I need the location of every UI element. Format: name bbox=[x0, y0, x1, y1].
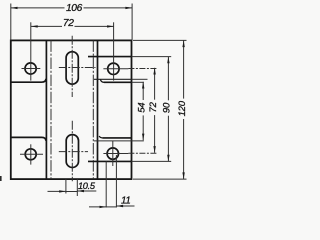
dim 10.5 ext left bbox=[65, 179, 67, 193]
dim 106 ext right bbox=[131, 4, 133, 41]
dim 120 ext top bbox=[133, 39, 187, 41]
dim 90 line bbox=[167, 57, 169, 162]
dim 120 ext bottom bbox=[133, 178, 187, 180]
hole bottom-left bbox=[25, 149, 36, 160]
dim 54 text bbox=[137, 100, 145, 115]
centerline TL circle vertical / 72-dim ext bbox=[30, 22, 32, 80]
svg-text:90: 90 bbox=[161, 102, 172, 113]
dim 72 top line bbox=[31, 25, 62, 27]
slot bottom bbox=[66, 135, 78, 168]
bottom-left cut bbox=[11, 137, 46, 140]
centerline top slot horizontal bbox=[59, 67, 96, 69]
hole bottom-right bbox=[107, 148, 118, 159]
dim 11 connector bbox=[106, 206, 116, 208]
fold edge right bbox=[97, 40, 99, 179]
centerline BR circle horizontal bbox=[103, 153, 128, 155]
dim 54 ext top bbox=[132, 81, 144, 83]
scan smudge left border bbox=[0, 176, 2, 181]
svg-text:72: 72 bbox=[148, 101, 159, 112]
bend line left (dash-dot) bbox=[50, 40, 52, 179]
tab edge thin ext right bbox=[132, 78, 148, 80]
svg-text:10.5: 10.5 bbox=[78, 181, 96, 191]
dim 11 shelf bbox=[116, 205, 134, 207]
centerline BL circle horizontal bbox=[20, 153, 43, 155]
dim 54 ext bottom bbox=[94, 140, 144, 142]
svg-text:120: 120 bbox=[177, 100, 188, 116]
centerline bottom slot horizontal bbox=[59, 151, 88, 153]
slot top bbox=[66, 52, 78, 84]
centerline bottom row right ext (72-dim) bbox=[128, 152, 157, 154]
plate outline bbox=[11, 40, 132, 179]
svg-text:54: 54 bbox=[136, 103, 147, 113]
dim 10.5 ext right bbox=[76, 179, 78, 196]
fold edge left bbox=[45, 40, 47, 179]
hole top-left bbox=[25, 63, 36, 74]
centerline TR circle vertical / 72-dim ext bbox=[113, 22, 115, 80]
bottom-right tab top cut bbox=[102, 137, 131, 139]
dim 120 text bbox=[178, 99, 186, 119]
dim 106 ext left bbox=[10, 4, 12, 41]
dim 72 right text bbox=[149, 100, 157, 115]
bend line right (dash-dot) bbox=[92, 40, 94, 179]
dim 10.5 connector bbox=[66, 191, 77, 193]
dim 90 ext top bbox=[132, 56, 172, 58]
dim 90 ext bottom bbox=[132, 160, 172, 162]
dim 72 right line bbox=[154, 68, 156, 153]
svg-text:72: 72 bbox=[63, 18, 74, 29]
centerline top slot vertical bbox=[71, 36, 73, 97]
dim 120 line bbox=[183, 40, 185, 179]
svg-text:106: 106 bbox=[66, 3, 83, 14]
svg-text:11: 11 bbox=[121, 195, 131, 206]
centerline bottom slot vertical bbox=[71, 121, 73, 182]
centerline top row right ext (72-dim) bbox=[128, 68, 157, 70]
dim 72 arrows bbox=[31, 25, 38, 27]
dim 10.5 arrow line left bbox=[48, 190, 66, 192]
dim 11 arrow line left bbox=[89, 206, 106, 208]
centerline TL circle horizontal bbox=[22, 68, 41, 70]
dim 90 text bbox=[162, 100, 170, 115]
dim 106 line bbox=[11, 7, 65, 9]
centerline BR circle vertical bbox=[112, 141, 114, 167]
top-right tab bottom cut bbox=[94, 78, 132, 80]
dim 54 line bbox=[142, 82, 144, 141]
centerline BL circle vertical bbox=[30, 144, 32, 164]
dim 10.5 shelf bbox=[77, 190, 96, 192]
dim 11 ext right bbox=[115, 155, 117, 208]
dim 106 arrows bbox=[11, 7, 18, 9]
hole top-right bbox=[108, 63, 119, 74]
dim 11 ext left bbox=[105, 161, 107, 207]
top-left cut bbox=[11, 79, 46, 82]
top-right tab top edge bbox=[88, 56, 132, 58]
bottom-right tab bottom edge bbox=[88, 160, 132, 162]
centerline TR circle horizontal bbox=[103, 68, 128, 70]
